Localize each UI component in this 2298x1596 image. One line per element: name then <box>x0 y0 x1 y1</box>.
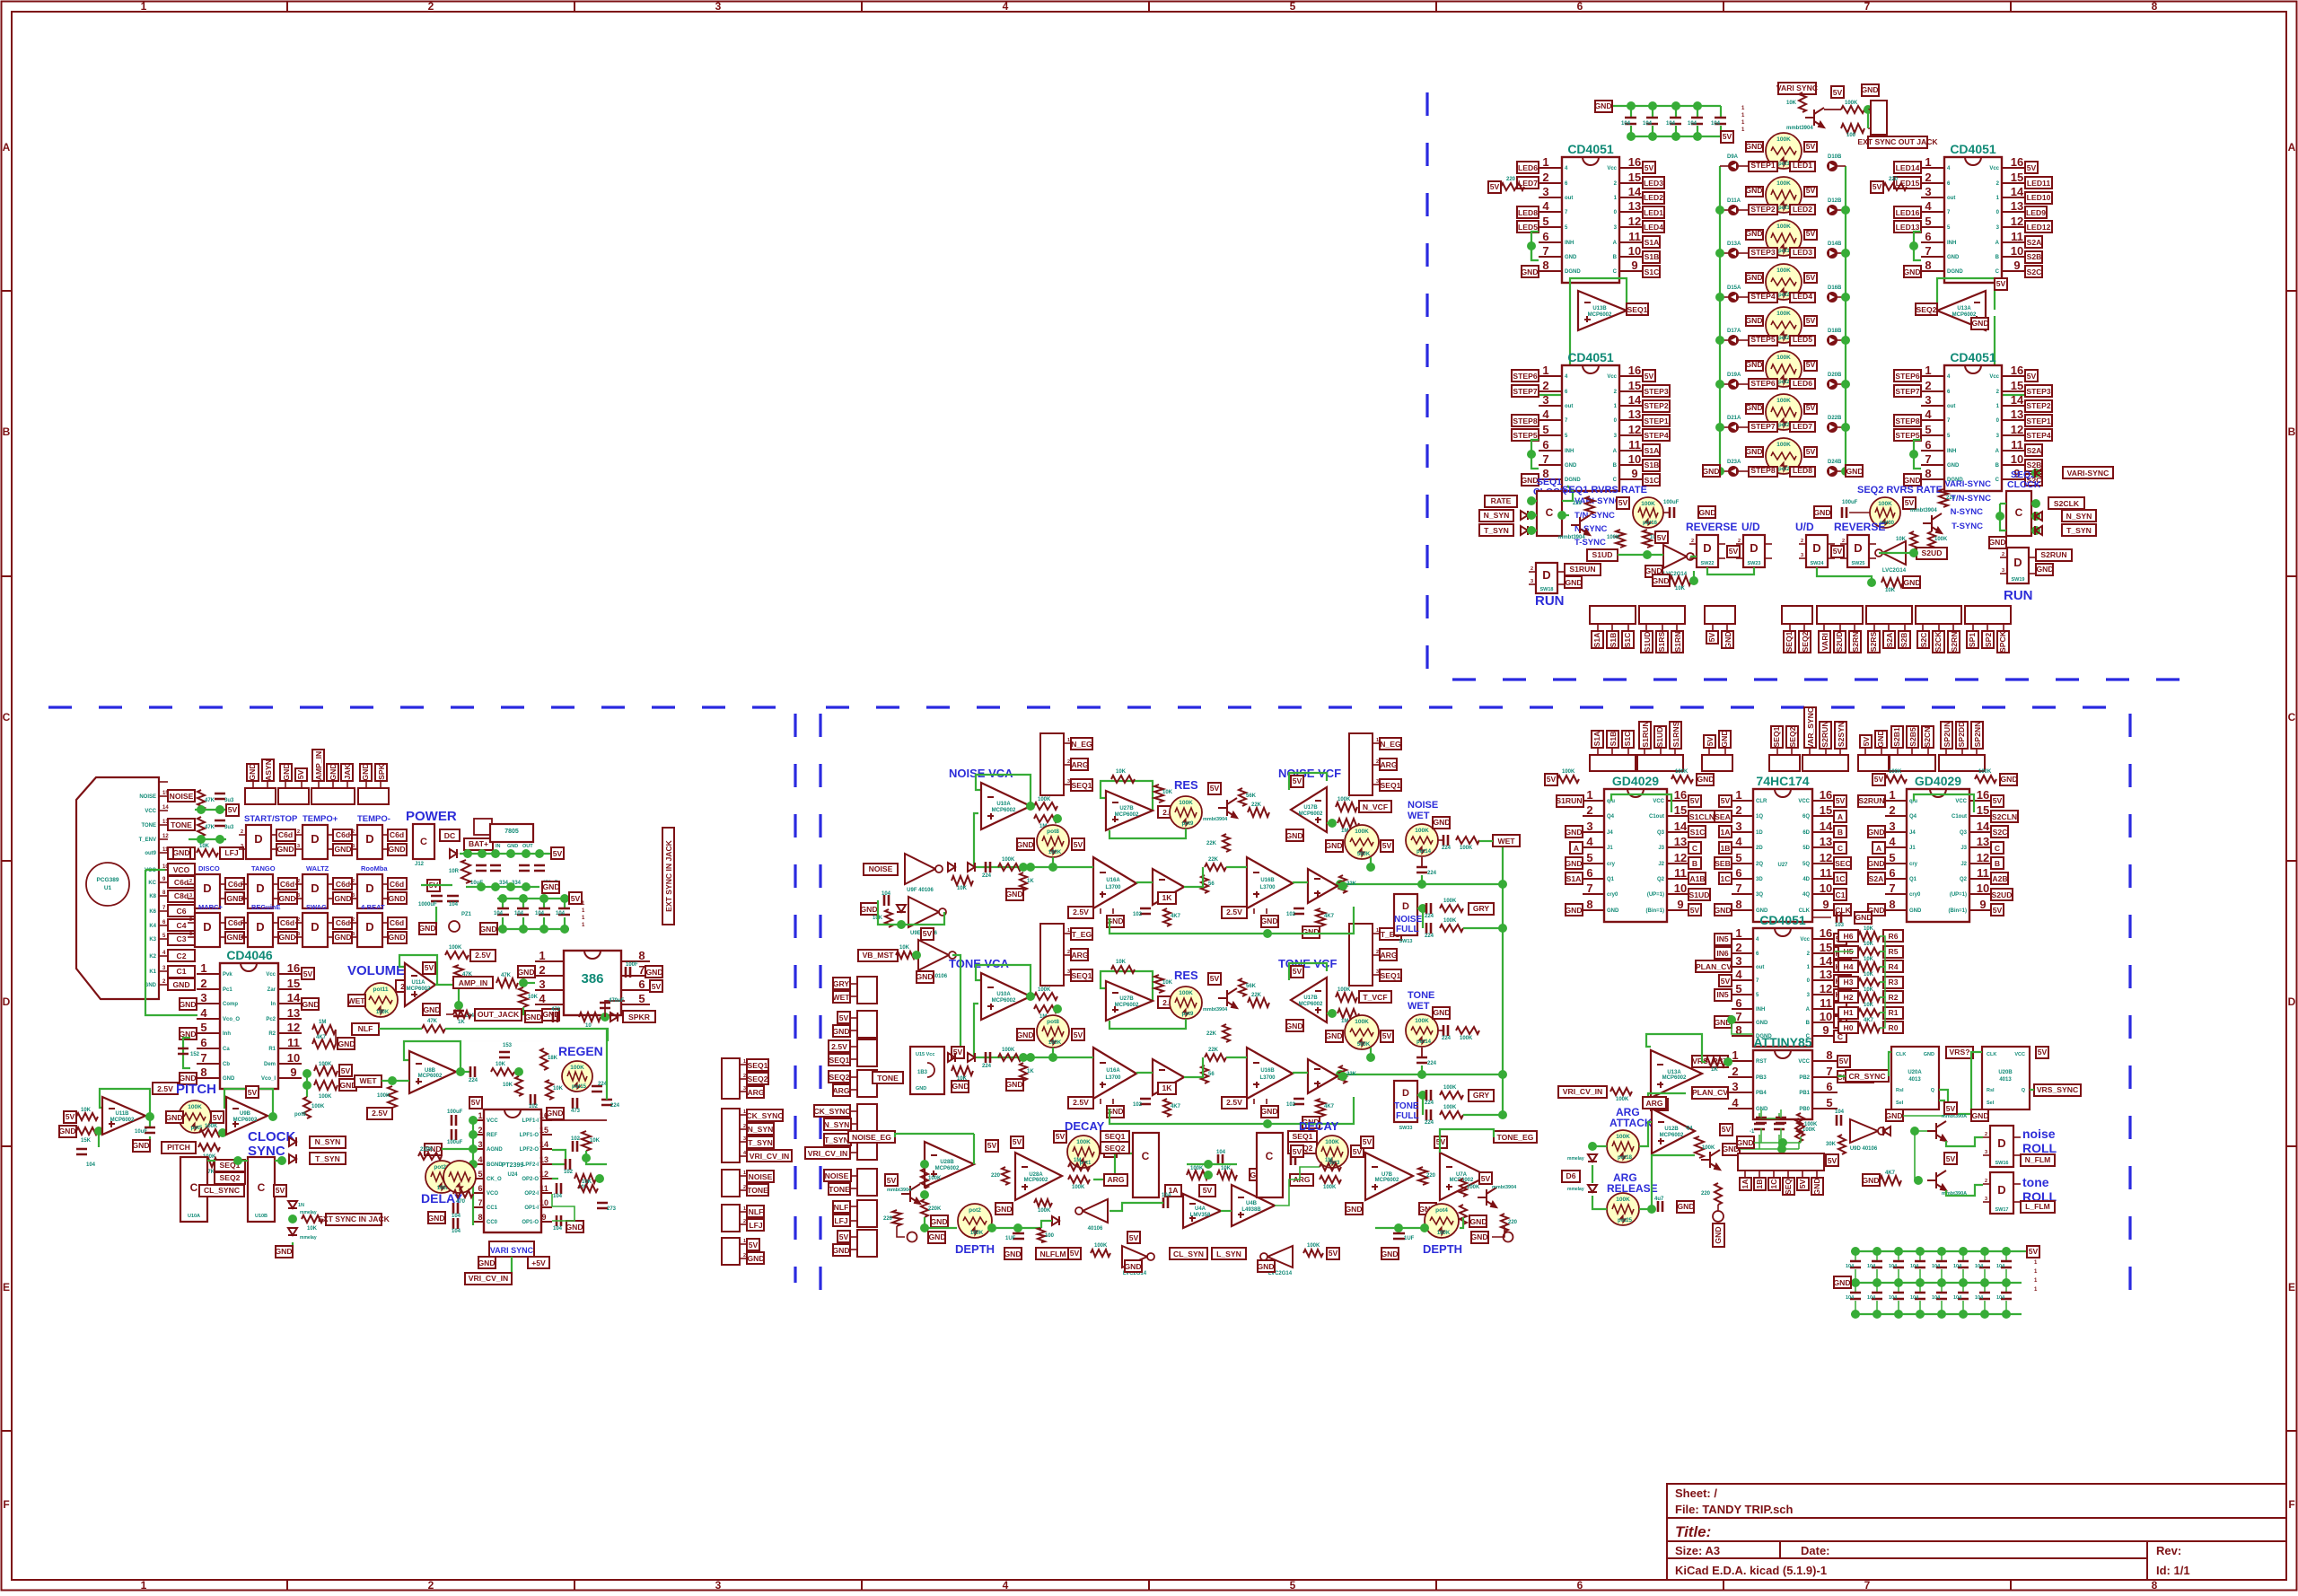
svg-text:T_ENV: T_ENV <box>139 837 156 843</box>
svg-text:D: D <box>203 920 211 934</box>
svg-text:2: 2 <box>297 917 300 923</box>
svg-text:EXT SYNC OUT JACK: EXT SYNC OUT JACK <box>1857 137 1938 146</box>
svg-text:4: 4 <box>1542 199 1549 213</box>
svg-text:224: 224 <box>1425 1101 1434 1106</box>
svg-text:GRY: GRY <box>833 979 850 988</box>
svg-text:C: C <box>420 837 427 847</box>
svg-text:9: 9 <box>1979 898 1986 911</box>
wires attiny left <box>1702 1061 1706 1063</box>
svg-text:GND: GND <box>747 1254 764 1263</box>
resistor 100K TONE vcf fb <box>1336 993 1357 1002</box>
op-amp U12B MCP6002 arg <box>1648 1093 1686 1105</box>
svg-text:CL_SYNC: CL_SYNC <box>204 1186 240 1195</box>
GND label 1000uF <box>435 907 437 925</box>
diode ext sync in top <box>288 1201 297 1208</box>
noise full mix network <box>1418 904 1427 913</box>
svg-text:10K: 10K <box>957 1076 968 1082</box>
wire u9a out <box>952 955 960 1057</box>
svg-text:START/STOP: START/STOP <box>244 814 298 824</box>
svg-text:A1B: A1B <box>1689 874 1705 883</box>
svg-text:GND: GND <box>2036 565 2053 574</box>
svg-text:C: C <box>3 711 11 723</box>
potentiometer pot19 100K step 3 <box>1766 220 1802 256</box>
resistor 10K pitch in <box>76 1113 98 1120</box>
svg-text:14: 14 <box>1977 820 1990 833</box>
transistor Q5 noise roll drive <box>1927 1121 1946 1141</box>
svg-text:TONE: TONE <box>1408 990 1434 1001</box>
capacitor 10uF pitch out <box>149 1117 151 1127</box>
svg-text:5V: 5V <box>296 769 305 779</box>
L_SYN label mid <box>1212 1248 1246 1259</box>
svg-text:VCO: VCO <box>173 865 190 874</box>
op-amp U9B MCP6002 clock <box>224 1089 273 1117</box>
svg-text:DECAY: DECAY <box>1065 1119 1105 1133</box>
svg-text:3: 3 <box>1735 954 1741 968</box>
svg-text:SW19: SW19 <box>2012 577 2025 583</box>
svg-text:GND: GND <box>172 848 189 857</box>
svg-text:224: 224 <box>610 1103 620 1109</box>
svg-text:5V: 5V <box>1806 186 1816 195</box>
5V label 386 pin6 <box>650 980 662 992</box>
svg-text:5V: 5V <box>1382 841 1392 850</box>
svg-text:VARI-SYNC: VARI-SYNC <box>1944 479 1991 489</box>
svg-text:TONE: TONE <box>829 1185 850 1194</box>
svg-text:1C: 1C <box>1836 874 1846 883</box>
5V label power lower <box>427 880 440 891</box>
svg-text:6: 6 <box>1925 438 1931 452</box>
capacitor 104 grid top x2211 <box>1984 1251 1986 1261</box>
svg-text:cry0: cry0 <box>1607 892 1618 898</box>
svg-text:U1: U1 <box>104 885 112 891</box>
svg-text:15: 15 <box>1820 803 1832 817</box>
svg-text:100K: 100K <box>1002 857 1015 863</box>
flip-flop U20B 4013 <box>1982 1047 2030 1109</box>
svg-text:Id: 1/1: Id: 1/1 <box>2156 1564 2190 1577</box>
svg-text:473: 473 <box>551 1007 561 1013</box>
svg-text:100K: 100K <box>1415 828 1429 834</box>
svg-text:5V: 5V <box>1382 1031 1392 1040</box>
svg-text:15: 15 <box>539 1126 548 1135</box>
output network 386 <box>524 1011 542 1022</box>
svg-text:Comp: Comp <box>223 1002 238 1007</box>
svg-text:PLAN_CV: PLAN_CV <box>1692 1088 1728 1097</box>
capacitor 224 NOISE wet <box>1438 839 1443 841</box>
svg-text:100K: 100K <box>1038 1208 1051 1214</box>
GND label pot ladder bottom right <box>1846 465 1864 477</box>
svg-text:8: 8 <box>1889 898 1895 911</box>
svg-text:104: 104 <box>1621 121 1631 127</box>
svg-text:470uF: 470uF <box>609 998 625 1004</box>
svg-text:TONE_EG: TONE_EG <box>1497 1133 1534 1142</box>
svg-text:S1RUN: S1RUN <box>1641 721 1650 747</box>
capacitor 104 grid bottom x2235 <box>2005 1283 2007 1293</box>
PCG389 pin VCC <box>159 810 168 811</box>
svg-text:INH: INH <box>1756 1007 1765 1013</box>
svg-text:5V: 5V <box>1293 776 1302 785</box>
svg-text:100K: 100K <box>1460 846 1473 851</box>
svg-text:GD4029: GD4029 <box>1915 774 1961 788</box>
potentiometer pot5 pitch <box>179 1101 211 1133</box>
svg-text:TONE: TONE <box>141 823 156 829</box>
svg-text:U10B: U10B <box>255 1214 268 1219</box>
svg-text:2: 2 <box>1925 171 1931 184</box>
svg-text:T/N-SYNC: T/N-SYNC <box>1951 494 1991 504</box>
trimmer pot6 100K CD4046 <box>306 1085 308 1097</box>
svg-text:GND: GND <box>860 905 877 914</box>
svg-text:J1: J1 <box>1909 846 1916 851</box>
svg-text:STEP5: STEP5 <box>1895 431 1919 440</box>
svg-text:13: 13 <box>1977 835 1989 848</box>
svg-text:104: 104 <box>1953 1264 1962 1269</box>
svg-text:12: 12 <box>1674 851 1687 864</box>
svg-text:C1out: C1out <box>1952 814 1967 820</box>
svg-text:5V: 5V <box>1293 1147 1302 1156</box>
svg-text:10: 10 <box>1820 1010 1832 1023</box>
diode D power <box>450 849 457 858</box>
diode seq2 n-sync <box>2035 512 2042 521</box>
svg-text:D: D <box>256 881 264 895</box>
svg-text:RST: RST <box>1756 1059 1767 1065</box>
5V label PT2399 <box>469 1097 482 1109</box>
svg-text:D13A: D13A <box>1727 241 1741 247</box>
svg-text:TONE: TONE <box>1394 1101 1419 1111</box>
capacitor 104 grid top x2187 <box>1962 1251 1964 1261</box>
TONE FULL switch SW33 <box>1394 1081 1417 1122</box>
svg-text:2.5V: 2.5V <box>372 1109 388 1118</box>
svg-text:5V: 5V <box>1806 142 1816 151</box>
potentiometer pot20 100K step 4 <box>1766 264 1802 300</box>
svg-text:2: 2 <box>1985 1132 1987 1137</box>
svg-text:9: 9 <box>2013 259 2020 272</box>
svg-text:STEP1: STEP1 <box>1750 161 1775 170</box>
svg-text:5V: 5V <box>749 1241 759 1250</box>
svg-text:10K: 10K <box>1864 942 1874 947</box>
svg-text:J4: J4 <box>1607 830 1613 836</box>
svg-text:C4: C4 <box>177 921 187 930</box>
speaker icon decay right <box>1504 1232 1513 1242</box>
PT2399 left cap bus <box>472 1120 474 1225</box>
svg-text:4K7: 4K7 <box>1171 914 1181 919</box>
svg-text:100uF: 100uF <box>447 1109 463 1115</box>
svg-text:104: 104 <box>452 1229 461 1234</box>
svg-text:4u7: 4u7 <box>1654 1197 1664 1202</box>
svg-text:VRS_SYNC: VRS_SYNC <box>2037 1085 2078 1094</box>
svg-text:LED12: LED12 <box>2027 223 2051 232</box>
svg-text:13: 13 <box>539 1155 548 1164</box>
svg-text:GND: GND <box>1565 828 1582 837</box>
svg-text:T_SYN: T_SYN <box>1484 526 1509 535</box>
capacitor 104 grid top x2115 <box>1898 1251 1899 1261</box>
svg-text:LED4: LED4 <box>1644 223 1663 232</box>
switch SW23 seq1 u/d <box>1743 535 1765 567</box>
svg-text:3: 3 <box>2002 568 2004 574</box>
svg-text:56: 56 <box>1208 881 1215 887</box>
resistor 10K ladder 1 <box>1858 948 1880 955</box>
svg-text:STEP3: STEP3 <box>2026 387 2050 396</box>
inverter U21 LVC2G14 seq1 <box>1663 545 1687 568</box>
capacitor 4u7 arg <box>1658 1201 1662 1212</box>
potentiometer pot TONE res <box>1170 987 1202 1019</box>
capacitor 104 grid top x2235 <box>2005 1251 2007 1261</box>
op-amp U11B MCP6002 pitch <box>100 1089 150 1117</box>
svg-text:2: 2 <box>200 977 206 990</box>
svg-text:S2RUN: S2RUN <box>2040 550 2066 559</box>
svg-text:U9B: U9B <box>240 1111 251 1117</box>
svg-text:GND: GND <box>1756 1107 1768 1112</box>
svg-text:SEQ1: SEQ1 <box>1293 1132 1313 1141</box>
svg-text:LED2: LED2 <box>1793 205 1812 214</box>
connector J logic top at x2160 <box>1939 755 1985 771</box>
svg-text:3: 3 <box>1889 820 1895 833</box>
svg-text:PITCH: PITCH <box>167 1143 190 1152</box>
svg-text:U17B: U17B <box>1303 995 1318 1001</box>
svg-text:5V: 5V <box>1056 1132 1066 1141</box>
svg-text:S1B: S1B <box>1645 460 1660 469</box>
svg-text:PB0: PB0 <box>1799 1107 1810 1112</box>
svg-text:30K: 30K <box>1826 1142 1837 1147</box>
svg-text:3: 3 <box>1067 779 1070 785</box>
svg-text:1000uF: 1000uF <box>418 902 437 908</box>
svg-text:10K: 10K <box>199 844 210 849</box>
svg-text:C6d: C6d <box>336 880 350 889</box>
flip-flop U20A 4013 <box>1891 1047 1939 1109</box>
svg-text:D: D <box>1997 1136 2005 1150</box>
svg-text:13: 13 <box>1628 408 1641 421</box>
diode clock t-sync <box>289 1154 296 1163</box>
svg-text:GND: GND <box>566 1223 583 1232</box>
resistor 100K tone in <box>998 1054 1022 1061</box>
wire u9e loop <box>878 900 944 925</box>
svg-text:B: B <box>1838 828 1843 837</box>
svg-text:2: 2 <box>1738 539 1741 544</box>
svg-text:R5: R5 <box>1889 947 1899 956</box>
svg-text:2: 2 <box>743 1253 746 1258</box>
svg-text:STEP2: STEP2 <box>2026 401 2050 410</box>
svg-text:5V: 5V <box>1946 1104 1956 1113</box>
svg-text:GND: GND <box>1594 101 1611 110</box>
potentiometer pot15 regen <box>562 1061 592 1092</box>
resistor 10K ext sync in <box>302 1215 323 1223</box>
5V label ext sync in <box>274 1185 286 1197</box>
svg-text:STEP6: STEP6 <box>1750 379 1775 388</box>
resistor 100K gd4029-2 right <box>1975 776 1996 783</box>
svg-text:16: 16 <box>287 961 300 975</box>
resistor 100K arg out <box>1695 1136 1704 1158</box>
svg-text:47K: 47K <box>427 1019 438 1024</box>
D6 label arg <box>1562 1171 1580 1182</box>
connector J NOISE eg <box>1040 733 1064 795</box>
svg-text:J2: J2 <box>1658 862 1664 867</box>
svg-text:1: 1 <box>1542 364 1548 377</box>
svg-text:3: 3 <box>352 893 355 899</box>
svg-text:pot15: pot15 <box>572 1084 587 1090</box>
svg-text:OUT: OUT <box>522 844 533 849</box>
wires seq1 clock <box>1528 500 1537 502</box>
svg-text:SWAG: SWAG <box>306 903 327 911</box>
svg-text:S2A: S2A <box>1885 633 1894 648</box>
svg-text:2.5V: 2.5V <box>1073 908 1089 916</box>
svg-text:100K: 100K <box>1776 311 1791 317</box>
svg-text:2: 2 <box>743 1124 746 1129</box>
svg-text:SP2UN: SP2UN <box>1943 722 1952 748</box>
svg-text:SEQ1: SEQ1 <box>1072 971 1092 980</box>
svg-text:100K: 100K <box>1978 769 1992 775</box>
svg-text:CLOCK: CLOCK <box>2007 479 2041 490</box>
svg-text:14: 14 <box>1820 954 1833 968</box>
potentiometer pot TONE vcf freq <box>1345 1015 1379 1049</box>
svg-text:C: C <box>1613 269 1618 275</box>
svg-text:WET: WET <box>832 993 850 1002</box>
svg-text:NOISE: NOISE <box>825 1171 849 1180</box>
svg-text:S2CLN: S2CLN <box>1992 812 2017 821</box>
svg-text:2: 2 <box>1376 759 1379 765</box>
svg-text:LPF2-O: LPF2-O <box>520 1147 539 1153</box>
svg-text:GND: GND <box>1004 1250 1021 1258</box>
green wire gd4029 1 clock <box>1611 794 1671 812</box>
piezo speaker arg <box>1713 1211 1723 1222</box>
svg-text:5: 5 <box>1290 1579 1296 1592</box>
svg-text:100K: 100K <box>1048 850 1062 855</box>
svg-text:OP1-O: OP1-O <box>522 1220 539 1225</box>
capacitor 102 NOISE b <box>1294 908 1304 914</box>
svg-text:100K: 100K <box>1048 1040 1062 1046</box>
buffer NOISE a <box>1153 869 1184 905</box>
svg-text:14: 14 <box>2011 393 2024 407</box>
capacitor 104 grid top x2091 <box>1876 1251 1878 1261</box>
svg-text:104: 104 <box>1932 1295 1941 1301</box>
svg-text:S1A: S1A <box>1645 446 1660 455</box>
svg-text:AMP_IN: AMP_IN <box>314 751 323 780</box>
svg-text:D: D <box>2013 556 2022 569</box>
svg-text:5V: 5V <box>1833 547 1843 556</box>
svg-text:14: 14 <box>2011 185 2024 198</box>
capacitor 470uF 386 out <box>600 1003 610 1008</box>
svg-text:10K: 10K <box>957 886 968 891</box>
svg-text:5V: 5V <box>1013 1137 1022 1146</box>
decay pot left pot1 <box>1067 1136 1100 1168</box>
svg-text:100K: 100K <box>1607 535 1620 540</box>
svg-text:B: B <box>1692 859 1697 868</box>
svg-text:5V: 5V <box>1706 736 1715 746</box>
resistor 22K NOISE mid <box>1205 864 1226 871</box>
svg-text:14: 14 <box>1820 820 1833 833</box>
svg-text:D18B: D18B <box>1828 329 1842 334</box>
svg-text:STEP6: STEP6 <box>1895 372 1919 381</box>
svg-text:WET: WET <box>1408 811 1430 821</box>
svg-text:S2CLK: S2CLK <box>2054 499 2080 508</box>
PCG389 pin K8 <box>159 895 168 897</box>
svg-text:3: 3 <box>352 932 355 937</box>
svg-text:NOISE: NOISE <box>1408 800 1438 811</box>
svg-text:3: 3 <box>297 893 300 899</box>
svg-text:S1C: S1C <box>1623 633 1632 648</box>
svg-text:5V: 5V <box>1721 796 1731 805</box>
svg-text:GND: GND <box>275 1247 292 1256</box>
svg-text:TEMPO-: TEMPO- <box>357 814 390 824</box>
svg-text:500K: 500K <box>1357 852 1371 857</box>
inverter LVC2G14 sync right <box>1267 1246 1293 1267</box>
svg-text:40106: 40106 <box>1088 1226 1103 1232</box>
PCG389 pin KC <box>159 881 168 883</box>
svg-text:J1: J1 <box>1607 846 1613 851</box>
svg-text:LED1: LED1 <box>1793 161 1812 170</box>
svg-text:DGND: DGND <box>1565 269 1581 275</box>
resistor 22K TONE b <box>1223 1024 1230 1042</box>
svg-text:5V: 5V <box>1905 498 1915 507</box>
svg-text:KiCad E.D.A. kicad (5.1.9)-1: KiCad E.D.A. kicad (5.1.9)-1 <box>1675 1564 1827 1577</box>
connector J logic top at x1971 <box>1769 755 1800 771</box>
svg-text:GND: GND <box>1862 1176 1879 1185</box>
VRI_CV_IN label <box>511 1257 513 1275</box>
op-amp U28A decay left <box>925 1142 974 1187</box>
svg-text:100K: 100K <box>1616 1097 1629 1102</box>
svg-text:6: 6 <box>200 1036 206 1049</box>
svg-text:22K: 22K <box>1346 881 1357 887</box>
potentiometer pot30 seq2 rvrs rate <box>1870 497 1900 528</box>
svg-text:9: 9 <box>541 1213 546 1222</box>
svg-text:104: 104 <box>1643 121 1653 127</box>
svg-text:B: B <box>2288 425 2296 438</box>
diode seq2 vari-sync <box>2031 472 2039 474</box>
VRI_CV_IN label vrs <box>1558 1086 1607 1098</box>
green wires 4013 <box>1838 1075 1846 1077</box>
resistor 220K decay right <box>1460 1205 1467 1224</box>
svg-text:104: 104 <box>1889 1295 1898 1301</box>
svg-text:VRI_CV_IN: VRI_CV_IN <box>808 1149 847 1158</box>
svg-text:GND: GND <box>952 1082 969 1091</box>
resistor 10K ladder 2 <box>1858 962 1880 971</box>
svg-text:7: 7 <box>1864 1579 1871 1592</box>
svg-text:104: 104 <box>1953 1295 1962 1301</box>
svg-text:13: 13 <box>2011 408 2023 421</box>
svg-text:5: 5 <box>1925 423 1931 436</box>
svg-text:100K: 100K <box>1038 987 1051 993</box>
svg-text:GND: GND <box>338 1039 355 1048</box>
PCG389 pin TONE <box>159 824 168 826</box>
svg-text:GND: GND <box>1325 1031 1342 1040</box>
svg-text:BGND: BGND <box>487 1162 503 1168</box>
svg-text:D12B: D12B <box>1828 198 1842 204</box>
svg-text:STEP6: STEP6 <box>1513 372 1537 381</box>
svg-text:4013: 4013 <box>1999 1077 2012 1083</box>
transistor Q3 decay right <box>1478 1188 1496 1207</box>
svg-text:R1: R1 <box>268 1047 276 1052</box>
svg-text:3: 3 <box>1542 393 1548 407</box>
svg-text:Size: A3: Size: A3 <box>1675 1544 1720 1557</box>
SPKR label <box>610 1013 618 1022</box>
green long feedback tone core bottom <box>1110 1097 1354 1124</box>
svg-text:2: 2 <box>743 1185 746 1190</box>
svg-text:1: 1 <box>141 0 147 13</box>
svg-text:1UF: 1UF <box>1005 1236 1016 1241</box>
svg-text:STEP1: STEP1 <box>2026 417 2050 425</box>
svg-text:6Q: 6Q <box>1802 814 1810 820</box>
svg-text:18K: 18K <box>548 1056 558 1061</box>
section divider dashed line sequencer bottom horizontal <box>1452 678 2196 680</box>
svg-text:10: 10 <box>2011 244 2023 258</box>
svg-text:386: 386 <box>581 971 603 987</box>
svg-text:POWER: POWER <box>406 809 457 824</box>
svg-text:A2B: A2B <box>1992 874 2007 883</box>
svg-text:mmbt3904: mmbt3904 <box>1203 817 1228 822</box>
WET label regen <box>355 1075 382 1087</box>
svg-text:2: 2 <box>1067 950 1070 955</box>
svg-text:K4: K4 <box>149 924 156 929</box>
resistor 4K7 CD4046 R1 <box>312 1039 336 1048</box>
svg-text:B: B <box>1995 255 2000 260</box>
svg-text:B: B <box>1995 463 2000 469</box>
svg-text:pot8: pot8 <box>1047 1019 1059 1025</box>
